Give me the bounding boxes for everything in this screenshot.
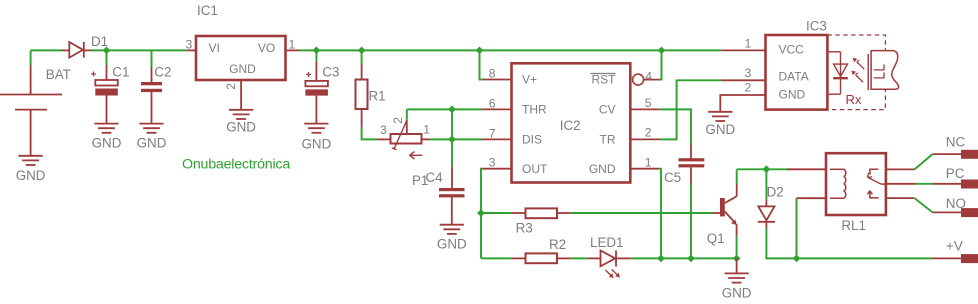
svg-text:BAT: BAT: [46, 67, 71, 82]
svg-text:PC: PC: [946, 166, 965, 181]
ground (C4): [437, 225, 467, 252]
resistor R1: [356, 50, 386, 127]
svg-text:C4: C4: [426, 170, 444, 185]
watermark Onubaelectronica: [182, 156, 290, 172]
wire P1 wiper to THR: [406, 109, 408, 119]
pad PC: [946, 166, 978, 189]
svg-text:GND: GND: [589, 162, 616, 176]
svg-text:IC3: IC3: [806, 18, 827, 33]
receiver case: [868, 51, 898, 90]
voltage regulator IC1: [186, 3, 300, 110]
ground (IC3): [705, 112, 735, 137]
svg-text:DIS: DIS: [522, 133, 542, 147]
ground (Q1): [722, 273, 752, 300]
capacitor C1: [91, 50, 129, 123]
svg-text:VI: VI: [209, 41, 220, 55]
svg-text:RST: RST: [592, 73, 617, 87]
wire Q1 collector riser: [736, 169, 738, 184]
wire PC: [916, 183, 961, 185]
svg-text:1: 1: [289, 38, 296, 52]
svg-text:C5: C5: [664, 170, 681, 185]
wire IC2 GND riser: [659, 169, 662, 259]
wire NO: [915, 198, 962, 212]
wire C5 to gnd rail: [690, 184, 692, 258]
svg-text:3: 3: [489, 156, 496, 170]
capacitor C5: [664, 144, 704, 185]
junction coil D2: [763, 165, 771, 173]
svg-text:D2: D2: [767, 185, 784, 200]
wire battery to D1: [31, 49, 61, 51]
battery BAT: [0, 50, 71, 155]
svg-text:VO: VO: [258, 41, 275, 55]
svg-text:C1: C1: [112, 64, 129, 79]
diode D2: [758, 169, 784, 228]
junction gnd Q1: [733, 255, 741, 263]
wire gnd rail: [631, 257, 737, 259]
resistor R2: [512, 237, 571, 263]
junction rail C1: [103, 47, 111, 55]
wire THR net: [407, 108, 483, 110]
svg-text:DATA: DATA: [779, 70, 809, 84]
svg-text:1: 1: [745, 37, 752, 51]
svg-text:GND: GND: [229, 62, 256, 76]
ground (battery): [16, 156, 46, 183]
svg-text:LED1: LED1: [590, 235, 624, 250]
capacitor C3: [305, 50, 339, 123]
ground (C2): [137, 124, 167, 151]
pad NO: [946, 196, 978, 217]
junction OUT node: [477, 209, 485, 217]
svg-text:CV: CV: [599, 103, 616, 117]
svg-text:1: 1: [423, 123, 430, 137]
svg-text:GND: GND: [705, 122, 735, 137]
junction THR riser: [448, 106, 456, 114]
svg-text:GND: GND: [722, 285, 752, 300]
svg-text:GND: GND: [16, 168, 46, 183]
svg-text:2: 2: [391, 117, 405, 124]
pad +V: [932, 239, 978, 264]
svg-text:TR: TR: [600, 133, 616, 147]
wire Q1 emitter to ground: [736, 258, 738, 273]
svg-text:7: 7: [489, 126, 496, 140]
svg-text:IC1: IC1: [197, 3, 218, 18]
relay RL1: [787, 153, 916, 233]
svg-text:3: 3: [186, 38, 193, 52]
svg-text:GND: GND: [137, 136, 167, 151]
svg-text:2: 2: [745, 81, 752, 95]
wire THR-DIS-C4 riser: [451, 109, 453, 166]
svg-text:IC2: IC2: [560, 118, 581, 133]
capacitor C4: [439, 167, 465, 225]
svg-text:5: 5: [645, 96, 652, 110]
wire OUT to R3: [481, 212, 512, 214]
svg-text:+V: +V: [946, 239, 963, 254]
wire coil bottom riser: [796, 198, 798, 258]
svg-text:NC: NC: [946, 135, 966, 150]
wire NC: [915, 154, 962, 169]
capacitor C2: [141, 50, 171, 123]
svg-text:4: 4: [645, 69, 652, 83]
wire R2 to LED1: [571, 257, 588, 259]
svg-text:3: 3: [745, 66, 752, 80]
svg-text:GND: GND: [779, 88, 806, 102]
svg-text:1: 1: [645, 156, 652, 170]
ground (C1): [92, 124, 122, 151]
led LED1: [588, 235, 631, 278]
junction +V coil: [793, 255, 801, 263]
junction rail R1: [358, 47, 366, 55]
junction DIS riser: [448, 136, 456, 144]
svg-text:Q1: Q1: [707, 231, 725, 246]
svg-text:NO: NO: [946, 196, 966, 211]
svg-text:Onubaelectrónica: Onubaelectrónica: [182, 156, 290, 172]
svg-text:GND: GND: [437, 237, 467, 252]
svg-text:R3: R3: [516, 221, 533, 236]
svg-text:OUT: OUT: [522, 162, 548, 176]
wire DATA to TR: [660, 80, 721, 139]
trimmer P1: [378, 117, 443, 188]
svg-text:3: 3: [380, 123, 387, 137]
svg-text:THR: THR: [522, 103, 547, 117]
wire D2 to +V rail: [766, 228, 931, 258]
svg-text:C2: C2: [154, 65, 171, 80]
transistor Q1: [707, 184, 737, 246]
timer IC2: [482, 63, 660, 182]
svg-text:D1: D1: [91, 34, 108, 49]
junction rail V+: [476, 47, 484, 55]
svg-text:VCC: VCC: [779, 43, 805, 57]
photodiode Rx: [827, 52, 864, 107]
junction gnd C5: [687, 255, 695, 263]
svg-text:8: 8: [489, 66, 496, 80]
svg-text:2: 2: [645, 126, 652, 140]
junction rail RST: [658, 47, 666, 55]
wire RST riser: [660, 50, 662, 79]
pad NC: [946, 135, 978, 159]
junction rail C3: [313, 47, 321, 55]
wire CV to C5: [660, 109, 691, 143]
wire collector to coil: [737, 168, 787, 170]
wire Q1 emitter: [736, 236, 738, 259]
svg-text:R2: R2: [549, 237, 566, 252]
IR receiver module IC3: [720, 18, 885, 111]
svg-text:V+: V+: [522, 73, 537, 87]
svg-text:C3: C3: [322, 65, 339, 80]
ground (C3): [302, 124, 332, 152]
svg-text:GND: GND: [92, 136, 122, 151]
wire R1 to P1: [362, 128, 378, 140]
wire OUT to R2: [481, 257, 512, 259]
wire V+ riser: [480, 50, 483, 79]
wire IC1 VO to rail: [300, 49, 721, 51]
svg-text:Rx: Rx: [846, 92, 862, 107]
junction gnd IC2: [657, 255, 665, 263]
svg-text:GND: GND: [226, 120, 256, 135]
diode D1: [61, 34, 108, 58]
wire R3 to Q1 base: [571, 212, 713, 214]
svg-text:RL1: RL1: [841, 218, 866, 233]
svg-text:GND: GND: [302, 137, 332, 152]
wire D1 to IC1 VI: [92, 49, 187, 51]
resistor R3: [512, 208, 571, 235]
wire DIS net: [430, 138, 482, 140]
svg-text:R1: R1: [369, 89, 386, 104]
svg-text:2: 2: [224, 83, 238, 90]
wire OUT riser: [481, 169, 483, 259]
ground (IC1): [226, 110, 256, 135]
svg-text:6: 6: [489, 96, 496, 110]
